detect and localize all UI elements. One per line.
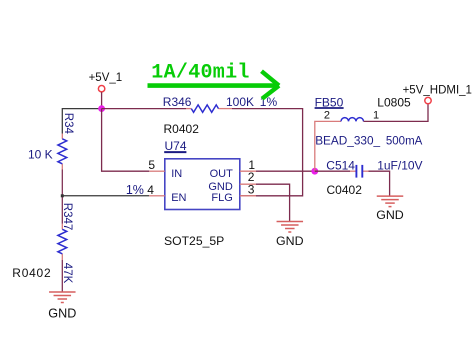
node B (R34 / R347 / EN) [61, 194, 64, 197]
svg-text:L0805: L0805 [377, 96, 411, 110]
power symbol +5V_HDMI_1 [403, 84, 472, 104]
svg-text:2: 2 [324, 110, 330, 122]
ground GND (C514) [376, 196, 404, 222]
wire C514 to ground [369, 171, 390, 196]
pin 2 GND stub [240, 170, 256, 184]
svg-text:BEAD_330_: BEAD_330_ [315, 133, 380, 147]
svg-text:R347: R347 [61, 203, 73, 231]
svg-text:+5V_HDMI_1: +5V_HDMI_1 [403, 84, 472, 96]
svg-text:GND: GND [376, 208, 404, 222]
node C (OUT / FB50 / C514) [311, 168, 318, 175]
svg-text:C0402: C0402 [327, 183, 363, 197]
svg-text:U74: U74 [165, 139, 187, 153]
svg-text:R0402: R0402 [12, 266, 51, 280]
svg-text:100K: 100K [226, 95, 254, 109]
resistor R347 47K [12, 203, 73, 284]
wire R347 to ground [61, 260, 63, 292]
svg-text:R0402: R0402 [164, 122, 200, 136]
svg-text:GND: GND [276, 234, 304, 248]
op-amp/regulator U74 box [164, 139, 240, 248]
svg-text:GND: GND [208, 181, 233, 193]
ground GND (R347) [48, 292, 76, 320]
pin 4 EN stub [126, 183, 165, 197]
wire IN pin to junction [102, 109, 150, 172]
wire node C to C514 [315, 170, 350, 172]
svg-text:1uF/10V: 1uF/10V [377, 158, 422, 172]
svg-text:10 K: 10 K [28, 147, 53, 161]
resistor R347 pin leads [61, 224, 63, 230]
svg-text:C514: C514 [326, 158, 355, 172]
power symbol +5V_1 [89, 72, 123, 92]
svg-text:GND: GND [48, 306, 76, 320]
svg-text:500mA: 500mA [386, 135, 423, 147]
svg-text:3: 3 [248, 183, 255, 197]
svg-text:R346: R346 [163, 95, 192, 109]
wire GND pin to ground [256, 184, 290, 221]
resistor R346 100K 1% [163, 95, 278, 136]
pin 1 OUT stub [240, 158, 256, 172]
wire OUT pin to node C [256, 170, 315, 172]
svg-text:1: 1 [373, 110, 379, 122]
svg-text:IN: IN [171, 168, 182, 180]
wire junction to R346 [102, 108, 186, 110]
ferrite bead FB50 BEAD_330_ [315, 96, 423, 148]
svg-text:FLG: FLG [211, 192, 232, 204]
svg-text:5: 5 [148, 158, 155, 172]
resistor R346 pin leads [186, 108, 191, 110]
wire junction to R34 top [62, 109, 101, 134]
wire R34 bottom to EN junction [61, 170, 63, 224]
svg-text:+5V_1: +5V_1 [89, 72, 123, 84]
resistor R34 10K [28, 113, 74, 164]
capacitor C514 pin leads [350, 170, 356, 172]
junction node A (+5V_1 / R34 / R346) [98, 105, 105, 112]
wire node B to EN pin 4 [62, 195, 149, 197]
wire FB50 pin 1 to +5V_HDMI_1 [364, 104, 429, 121]
wire node C up to FB50 pin 2 [315, 121, 341, 171]
wire +5V_1 to junction [101, 92, 103, 108]
resistor R34 pin leads [61, 134, 63, 139]
svg-text:SOT25_5P: SOT25_5P [164, 234, 224, 248]
svg-text:EN: EN [171, 192, 186, 204]
ground GND (U74 pin 2) [276, 222, 304, 249]
svg-text:1A/40mil: 1A/40mil [151, 62, 249, 85]
svg-text:1%: 1% [126, 183, 144, 197]
svg-text:4: 4 [147, 183, 154, 197]
svg-text:OUT: OUT [210, 168, 234, 180]
capacitor C514 1uF/10V [326, 158, 422, 197]
pin 5 IN stub [148, 158, 164, 172]
pin 3 FLG stub [240, 183, 256, 197]
wire R346 to FLG pin 3 [232, 109, 303, 196]
annotation 1A/40mil with arrow [148, 62, 280, 99]
svg-text:R34: R34 [62, 113, 74, 135]
